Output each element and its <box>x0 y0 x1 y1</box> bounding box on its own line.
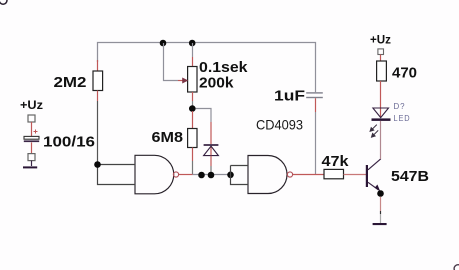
NAND gate U1B <box>248 156 293 194</box>
wire top rail <box>98 43 316 63</box>
NAND gate U1A <box>135 155 179 194</box>
wiper arrow of R2 <box>183 78 188 83</box>
svg-text:547B: 547B <box>391 168 429 185</box>
svg-text:LED: LED <box>394 113 411 123</box>
diode D1 <box>204 122 219 175</box>
svg-text:CD4093: CD4093 <box>256 117 303 133</box>
node junction dot mid C <box>227 172 234 179</box>
wire supply to R5 <box>380 55 382 62</box>
wiper wire of R2 <box>164 43 179 81</box>
svg-text:470: 470 <box>392 65 417 82</box>
node junction dot rail B <box>189 40 196 47</box>
wire C1 to lower pin <box>31 142 33 153</box>
wire junction to diode column <box>196 109 212 123</box>
svg-text:1uF: 1uF <box>274 88 305 105</box>
ground (left) <box>23 166 37 168</box>
wire U1A input ties <box>98 165 136 185</box>
svg-text:100/16: 100/16 <box>43 134 95 151</box>
pin square left supply top <box>28 115 35 122</box>
capacitor C2 1uF <box>274 60 323 175</box>
resistor R5 470 <box>377 61 417 108</box>
wire U1B output to R4 <box>293 174 324 176</box>
watermark corner mark bottom-right <box>454 265 459 270</box>
wire to ground <box>31 161 33 166</box>
pin square left supply bottom <box>28 154 35 161</box>
svg-text:200k: 200k <box>199 75 234 92</box>
svg-text:47k: 47k <box>322 153 350 170</box>
resistor R1 2M2 <box>54 60 103 101</box>
svg-text:0.1sek: 0.1sek <box>199 59 248 76</box>
wire R1 to gate U1A inputs <box>97 101 99 165</box>
node junction dot mid A <box>198 172 205 179</box>
node junction dot rail A <box>160 40 167 47</box>
node junction dot emitter <box>377 190 384 197</box>
capacitor C1 100/16 <box>24 130 95 151</box>
ground (emitter) <box>373 223 387 225</box>
svg-text:D?: D? <box>394 101 406 111</box>
wire U1A output to U1B inputs <box>179 174 193 176</box>
watermark corner mark top-left <box>0 0 7 4</box>
node junction dot pot bottom <box>189 105 196 112</box>
LED emission arrows <box>370 125 378 138</box>
node junction dot mid B <box>208 172 215 179</box>
wire U1B input ties <box>231 166 249 185</box>
svg-text:2M2: 2M2 <box>54 74 87 91</box>
resistor R4 47k <box>322 153 367 179</box>
wire supply to C1 <box>31 122 33 136</box>
potentiometer R2 200k <box>188 43 197 106</box>
svg-text:+Uz: +Uz <box>20 98 43 112</box>
transistor Q1 547B <box>366 159 429 191</box>
resistor R3 6M8 <box>152 111 198 175</box>
LED D2 <box>372 108 391 159</box>
svg-text:+Uz: +Uz <box>370 33 391 47</box>
node junction dot U1A inputs <box>94 161 101 168</box>
svg-text:6M8: 6M8 <box>152 129 184 146</box>
pin square right supply <box>378 49 384 55</box>
wire emitter to ground <box>380 197 382 211</box>
